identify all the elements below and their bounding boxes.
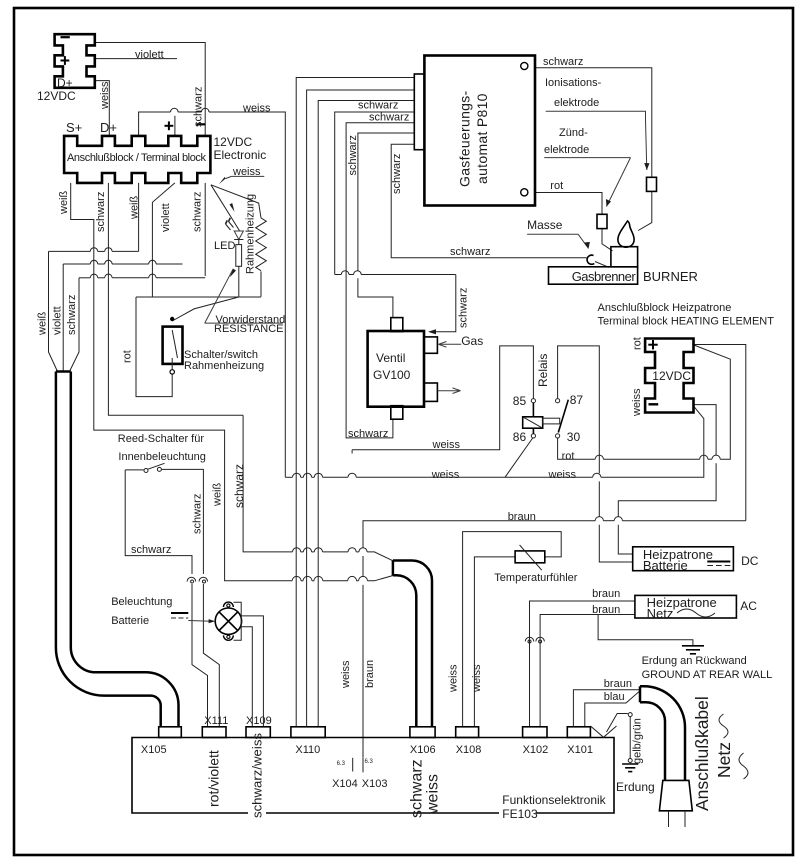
svg-text:schwarz: schwarz [348,428,388,440]
svg-text:weiss: weiss [548,469,577,481]
svg-text:12VDC: 12VDC [37,89,76,103]
svg-text:Reed-Schalter für: Reed-Schalter für [118,433,205,445]
svg-text:Innenbeleuchtung: Innenbeleuchtung [118,451,205,463]
svg-text:LED: LED [214,240,235,252]
svg-text:X110: X110 [295,744,320,756]
svg-text:GROUND AT REAR WALL: GROUND AT REAR WALL [642,669,773,681]
svg-text:weiss: weiss [471,664,483,693]
svg-text:Gasbrenner: Gasbrenner [572,269,637,284]
svg-text:D+: D+ [100,120,117,135]
svg-text:30: 30 [567,430,581,444]
svg-text:Terminal block HEATING ELEMENT: Terminal block HEATING ELEMENT [598,316,775,328]
svg-text:rot/violett: rot/violett [206,750,222,807]
svg-text:schwarz: schwarz [95,192,107,232]
svg-text:violett: violett [160,203,172,232]
svg-text:schwarz: schwarz [192,192,204,232]
svg-text:Erdung: Erdung [616,780,655,794]
svg-text:weiss: weiss [340,660,352,689]
svg-text:rot: rot [122,350,134,363]
svg-text:86: 86 [513,430,527,444]
svg-text:X106: X106 [410,744,436,756]
svg-text:Gasfeuerungs-: Gasfeuerungs- [457,90,473,187]
svg-text:weiß: weiß [58,190,70,215]
svg-text:braun: braun [508,511,536,523]
svg-text:schwarz: schwarz [543,56,583,68]
svg-text:elektrode: elektrode [554,97,599,109]
svg-text:X101: X101 [567,744,593,756]
svg-text:schwarz: schwarz [409,759,426,818]
svg-text:Anschlußblock / Terminal block: Anschlußblock / Terminal block [67,152,207,164]
svg-text:weiß: weiß [129,195,141,220]
svg-text:schwarz: schwarz [193,87,205,127]
svg-text:weiss: weiss [432,439,461,451]
svg-text:schwarz/weiss: schwarz/weiss [250,733,265,818]
svg-text:Relais: Relais [536,354,550,387]
svg-text:6.3: 6.3 [337,761,346,767]
svg-text:Netz: Netz [647,606,674,621]
svg-text:X108: X108 [456,744,482,756]
svg-text:GV100: GV100 [373,368,411,382]
svg-text:weiss: weiss [631,388,643,417]
svg-text:schwarz: schwarz [131,544,171,556]
svg-text:weiss: weiss [99,81,111,110]
svg-text:schwarz: schwarz [232,464,246,508]
svg-text:Batterie: Batterie [111,615,149,627]
svg-text:violett: violett [52,306,64,335]
svg-text:braun: braun [592,604,620,616]
svg-text:S+: S+ [66,120,82,135]
svg-text:X109: X109 [246,715,272,727]
svg-text:Electronic: Electronic [214,148,267,162]
svg-text:weiß: weiß [37,311,49,336]
svg-text:weiss: weiss [242,103,271,115]
svg-text:FE103: FE103 [502,807,538,821]
svg-text:schwarz: schwarz [450,246,490,258]
svg-text:weiss: weiss [232,166,261,178]
svg-text:X102: X102 [523,744,549,756]
svg-text:Rahmenheizung: Rahmenheizung [245,194,257,274]
svg-text:blau: blau [604,691,625,703]
svg-text:Netz: Netz [714,742,734,778]
svg-text:braun: braun [364,660,376,688]
svg-text:braun: braun [592,588,620,600]
svg-text:automat P810: automat P810 [474,93,490,184]
svg-text:rot: rot [550,180,563,192]
svg-text:X104: X104 [332,778,358,790]
svg-text:Rahmenheizung: Rahmenheizung [184,360,264,372]
svg-text:85: 85 [513,394,527,408]
svg-text:weiss: weiss [448,664,460,693]
svg-text:6.3: 6.3 [365,759,374,765]
svg-text:RESISTANCE: RESISTANCE [214,323,283,335]
svg-text:rot: rot [562,451,575,463]
svg-text:12VDC: 12VDC [214,135,253,149]
svg-text:schwarz: schwarz [192,494,204,534]
svg-text:D+: D+ [57,76,73,90]
svg-text:weiß: weiß [212,482,224,507]
svg-text:schwarz: schwarz [358,100,398,112]
svg-text:violett: violett [135,49,164,61]
svg-text:Ionisations-: Ionisations- [545,77,602,89]
svg-text:Ventil: Ventil [376,351,405,365]
svg-text:Erdung an Rückwand: Erdung an Rückwand [642,655,747,667]
svg-text:schwarz: schwarz [369,112,409,124]
svg-text:BURNER: BURNER [643,269,698,284]
svg-text:weiss: weiss [425,774,442,815]
svg-text:87: 87 [570,393,584,407]
svg-text:schwarz: schwarz [66,295,78,335]
svg-text:Temperaturfühler: Temperaturfühler [494,572,577,584]
svg-text:Anschlußkabel: Anschlußkabel [692,696,712,811]
svg-text:schwarz: schwarz [391,154,403,194]
svg-text:Masse: Masse [527,218,563,232]
svg-text:12VDC: 12VDC [652,369,691,383]
svg-text:X111: X111 [204,715,228,727]
svg-text:Gas: Gas [461,334,483,348]
svg-text:elektrode: elektrode [544,144,589,156]
svg-text:X105: X105 [141,744,167,756]
svg-text:X103: X103 [362,778,388,790]
svg-text:DC: DC [741,554,759,568]
svg-text:schwarz: schwarz [458,288,470,328]
svg-text:Funktionselektronik: Funktionselektronik [502,793,606,807]
svg-text:weiss: weiss [431,469,460,481]
svg-text:Anschlußblock Heizpatrone: Anschlußblock Heizpatrone [598,302,732,314]
svg-text:schwarz: schwarz [347,135,359,175]
svg-text:gelb/grün: gelb/grün [632,718,644,764]
svg-text:Batterie: Batterie [643,558,688,573]
svg-text:braun: braun [604,678,632,690]
svg-text:Zünd-: Zünd- [559,127,588,139]
svg-text:AC: AC [740,599,757,613]
svg-text:rot: rot [632,337,644,350]
svg-text:Beleuchtung: Beleuchtung [111,596,172,608]
